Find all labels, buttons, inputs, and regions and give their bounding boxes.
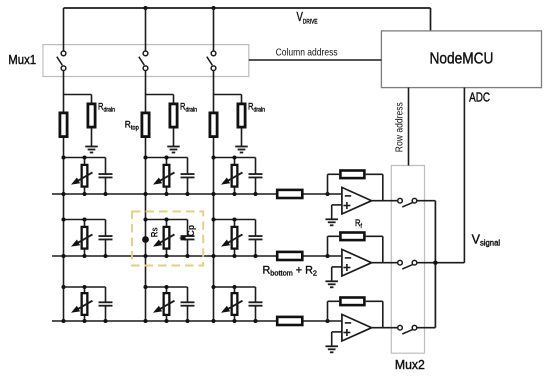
svg-text:Column address: Column address (276, 47, 338, 59)
svg-text:Cp: Cp (186, 224, 196, 236)
svg-text:NodeMCU: NodeMCU (429, 51, 493, 68)
svg-text:ADC: ADC (469, 90, 490, 105)
svg-text:Row address: Row address (395, 102, 406, 152)
svg-text:Mux1: Mux1 (8, 53, 36, 67)
svg-text:Rs: Rs (149, 227, 159, 237)
svg-text:Mux2: Mux2 (395, 358, 425, 372)
